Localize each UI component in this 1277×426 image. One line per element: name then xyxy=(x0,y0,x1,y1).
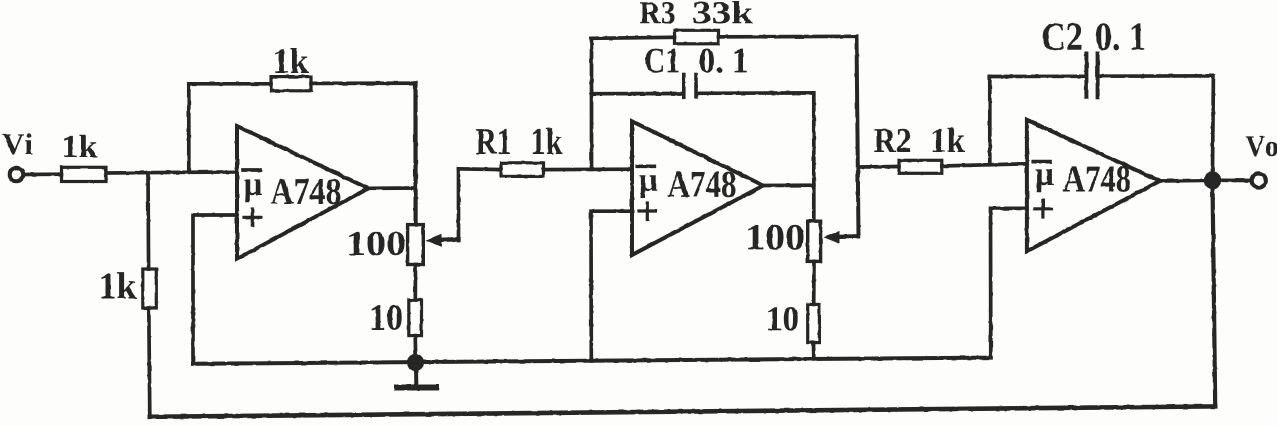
wire wiper to R1 xyxy=(459,167,502,172)
op-amp U3 xyxy=(1027,120,1160,252)
0.1 value label xyxy=(700,49,747,73)
10 value label xyxy=(372,305,402,330)
1k value label xyxy=(933,128,965,152)
wire U3 output xyxy=(1160,178,1213,182)
wire U1 feedback top xyxy=(189,82,271,86)
1k value label xyxy=(275,48,308,73)
wire R3 top left xyxy=(592,37,675,38)
100 value label xyxy=(748,225,803,250)
wire R1 to op-amp U2 inverting input xyxy=(544,167,633,171)
U2 mu label xyxy=(639,175,657,198)
resistor 1k (input) xyxy=(62,167,107,181)
ground xyxy=(414,362,418,384)
1k value label xyxy=(64,135,97,157)
wire R2 to op-amp U3 inverting input xyxy=(942,164,1027,166)
10 value label xyxy=(769,307,798,331)
R3 label xyxy=(640,2,675,24)
100 value label xyxy=(349,232,404,256)
Vo label xyxy=(1246,136,1277,156)
U3 mu label xyxy=(1036,169,1054,192)
U1 inverting input minus bar xyxy=(244,168,261,172)
wire U2 noninverting input xyxy=(591,211,632,361)
capacitor C2 right wire xyxy=(1099,76,1213,181)
wire Vi to input resistor xyxy=(24,172,62,176)
wire U1 noninverting input xyxy=(193,215,237,364)
wire R3 vertical to R2 xyxy=(858,165,899,169)
wire C2 left vertical xyxy=(988,77,992,165)
resistor 10 (stage 1) xyxy=(409,300,422,336)
33k value label xyxy=(694,1,753,24)
op-amp U2 xyxy=(632,121,763,255)
resistor R2 1k xyxy=(899,160,942,173)
U2 plus marker xyxy=(639,209,656,212)
node ground junction xyxy=(407,354,424,371)
capacitor C1 right wire xyxy=(698,93,814,221)
resistor R3 33k xyxy=(675,30,719,44)
wire vertical resistor to bottom feedback line xyxy=(149,308,150,417)
wire pot to resistor 10 xyxy=(413,265,417,301)
wiper arrow (stage 1) xyxy=(426,234,442,247)
R1 label xyxy=(476,129,510,154)
wire feedback resistor to output vertical xyxy=(311,81,416,85)
node input junction, wire down xyxy=(146,173,150,270)
U3 plus marker xyxy=(1035,207,1052,210)
wire pot to resistor 10 (stage 2) xyxy=(812,261,816,304)
wire resistor 10 to ground rail xyxy=(413,336,417,363)
wire resistor 10 to rail (stage 2) xyxy=(812,343,816,360)
C2 label xyxy=(1043,23,1082,50)
wire input resistor to op-amp U1 inverting input xyxy=(106,172,237,173)
wire U1 output xyxy=(367,186,416,190)
capacitor C1 xyxy=(682,75,686,98)
wire ground rail xyxy=(193,358,991,364)
resistor R1 1k xyxy=(501,163,544,177)
resistor 10 (stage 2) xyxy=(808,304,820,342)
U1 A748 label xyxy=(271,179,341,205)
C1 label xyxy=(645,49,678,73)
U2 A748 label xyxy=(668,172,736,198)
potentiometer 100 (stage 2) xyxy=(808,221,821,261)
capacitor C2 left wire xyxy=(990,74,1085,78)
wire Vo node down to bottom line xyxy=(1213,181,1216,406)
0.1 value label xyxy=(1096,23,1144,50)
U2 inverting input minus bar xyxy=(637,164,654,168)
Vi label xyxy=(2,133,32,154)
wire U2 feedback left vertical xyxy=(590,38,594,169)
U1 mu label xyxy=(244,179,262,202)
wire U1 feedback left vertical xyxy=(187,84,191,172)
node Vo junction xyxy=(1204,171,1222,189)
node Vo terminal xyxy=(1252,173,1266,187)
U3 A748 label xyxy=(1063,166,1130,192)
wire U2 output xyxy=(763,183,814,187)
op-amp U1 xyxy=(237,126,368,259)
wire R3 right vertical down to wiper xyxy=(857,36,859,236)
node Vi terminal xyxy=(10,168,24,182)
wire U3 noninverting input xyxy=(991,208,1027,357)
1k value label xyxy=(101,272,136,298)
wire U1 output vertical xyxy=(413,83,417,224)
wire bottom feedback line from Vo xyxy=(150,406,1215,416)
U1 plus marker xyxy=(244,216,261,219)
capacitor C1 left wire xyxy=(592,92,683,96)
potentiometer 100 (stage 1) xyxy=(408,225,424,265)
1k value label xyxy=(533,128,563,154)
resistor 1k (U1 feedback) xyxy=(271,77,311,91)
U3 inverting input minus bar xyxy=(1033,160,1050,164)
R2 label xyxy=(874,129,910,152)
wire node to Vo terminal xyxy=(1221,178,1251,182)
capacitor C2 xyxy=(1084,54,1088,98)
wire R3 top right xyxy=(719,34,857,38)
wiper arrow (stage 2) xyxy=(824,231,840,244)
resistor 1k (vertical, to feedback line) xyxy=(143,269,157,308)
